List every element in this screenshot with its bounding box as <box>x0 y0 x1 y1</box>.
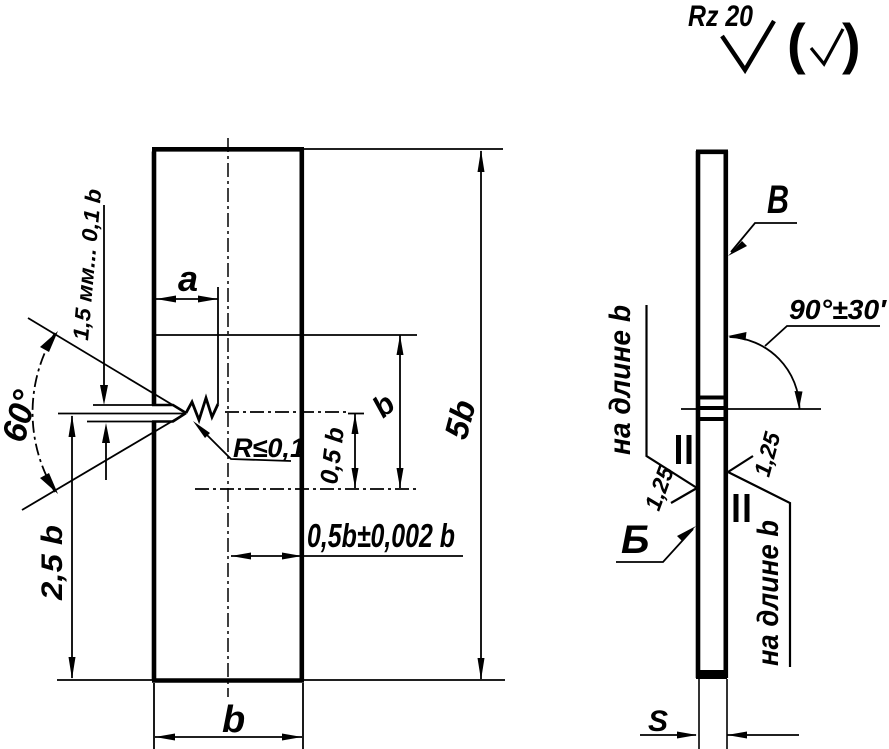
svg-text:Rz 20: Rz 20 <box>688 0 753 33</box>
svg-text:a: a <box>178 258 198 299</box>
notch slot edges <box>152 405 186 422</box>
svg-text:на длине b: на длине b <box>752 520 785 666</box>
roughness checkmark (large) <box>722 21 774 70</box>
dimension 0,5b (vertical): line with arrows <box>354 414 356 488</box>
break zigzag at notch tip <box>186 398 218 420</box>
svg-text:b: b <box>222 699 245 741</box>
bottom extension line <box>57 679 505 681</box>
strip outline (side view) <box>696 151 728 678</box>
svg-text:Б: Б <box>621 518 649 562</box>
svg-text:на длине b: на длине b <box>604 305 637 455</box>
lower reference line (dash-dot) <box>195 488 417 490</box>
dimension 2,5b (left vertical) <box>71 416 73 678</box>
60-degree arc (dash-dot) <box>33 333 55 492</box>
svg-text:(: ( <box>787 12 806 75</box>
dimension b (bottom) extension lines <box>153 683 155 749</box>
60-degree construction line lower leg <box>22 413 186 510</box>
b-dimension top reference line <box>153 334 417 336</box>
notch reference line through strip <box>681 408 821 410</box>
arc arrowhead top <box>40 331 58 352</box>
dimension 0,5b±0,002b <box>231 555 463 557</box>
centerline of specimen (vertical dash-dot) <box>227 138 229 697</box>
dimension a: line <box>156 298 218 300</box>
notch slot extension lines <box>58 405 186 422</box>
notch bands on strip <box>697 396 727 400</box>
5b top extension line <box>302 148 503 150</box>
svg-text:): ) <box>842 12 861 75</box>
roughness checkmark (small, in parentheses) <box>811 29 843 64</box>
90 degree arc <box>730 337 800 409</box>
roughness mark left (1,25 with parallel-lay symbol) <box>647 305 698 488</box>
strip bottom cap (thick band) <box>696 670 727 679</box>
dimension 5b: line with arrows <box>480 151 482 679</box>
dimension a: extension line <box>217 287 219 404</box>
svg-text:R≤0,1: R≤0,1 <box>233 433 305 463</box>
arc arrowhead bottom <box>40 473 58 494</box>
notch width arrow lower (points up) <box>105 430 107 480</box>
dimension b (bottom) line <box>155 736 302 738</box>
60-degree construction line upper leg <box>28 318 186 413</box>
R<=0,1 leader with arrow <box>197 425 291 461</box>
svg-text:2,5 b: 2,5 b <box>36 525 69 601</box>
svg-text:S: S <box>648 705 668 738</box>
notch width arrow upper (points down) <box>103 205 105 398</box>
dimension b (right, vertical): line with arrows <box>399 335 401 488</box>
svg-text:90°±30′: 90°±30′ <box>789 294 887 325</box>
notch centerline continuation (dash-dot) <box>225 411 350 413</box>
strip extension lines below <box>698 679 700 749</box>
svg-text:0,5b±0,002 b: 0,5b±0,002 b <box>307 517 455 554</box>
roughness mark right (1,25 with parallel-lay symbol) <box>728 456 753 472</box>
specimen outline (front view) <box>152 149 304 680</box>
svg-text:В: В <box>767 178 789 222</box>
